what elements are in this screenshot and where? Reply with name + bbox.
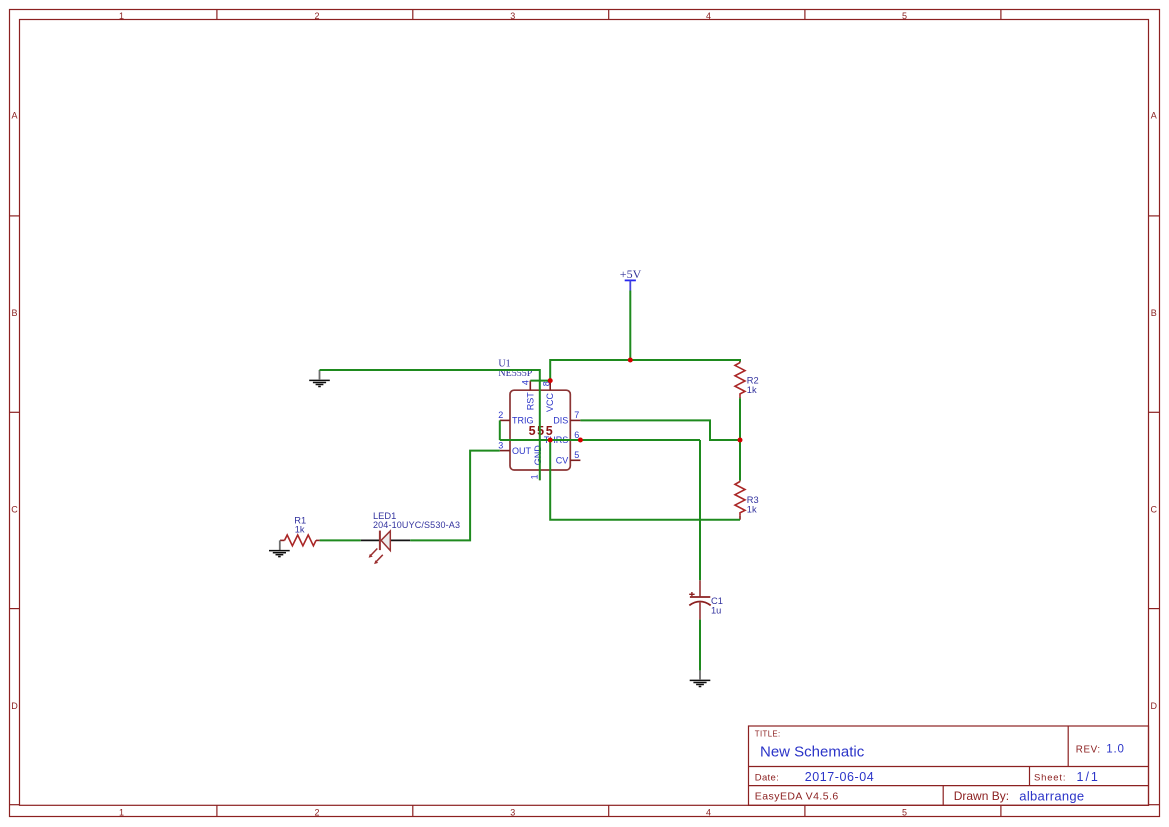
svg-text:REV:: REV:: [1076, 745, 1101, 756]
svg-text:Sheet:: Sheet:: [1034, 773, 1066, 784]
svg-text:A: A: [11, 110, 17, 120]
svg-text:1k: 1k: [295, 524, 305, 534]
ground (left, GND net): [309, 370, 330, 387]
svg-text:R2: R2: [747, 376, 759, 386]
wire TRIG pin2 down to THRS net: [499, 420, 501, 440]
svg-text:3: 3: [498, 440, 503, 450]
svg-text:4: 4: [706, 11, 711, 21]
junction dot THRS / R3 return: [548, 438, 553, 443]
svg-text:2: 2: [314, 807, 319, 817]
svg-text:5: 5: [902, 11, 907, 21]
svg-text:RST: RST: [525, 392, 535, 411]
svg-text:7: 7: [574, 410, 579, 420]
IC U1 NE555P (555 timer): [498, 358, 580, 480]
svg-text:D: D: [1151, 701, 1158, 711]
wire OUT pin3 to LED anode: [410, 451, 500, 541]
wire +5V rail right to R2: [630, 360, 740, 362]
svg-text:1/1: 1/1: [1077, 770, 1100, 784]
resistor R2: [735, 360, 759, 398]
wire R1 to LED cathode: [320, 539, 361, 541]
ground under R1: [269, 540, 290, 556]
resistor R1: [280, 515, 320, 545]
wire R2 to R3: [739, 398, 741, 480]
svg-text:DIS: DIS: [553, 416, 568, 426]
svg-text:5: 5: [574, 450, 579, 460]
wire left ground to GND pin1: [320, 370, 540, 480]
svg-text:A: A: [1151, 110, 1157, 120]
svg-text:4: 4: [521, 380, 531, 385]
svg-text:4: 4: [706, 807, 711, 817]
svg-text:New Schematic: New Schematic: [760, 744, 865, 761]
svg-text:2: 2: [498, 410, 503, 420]
svg-text:1k: 1k: [747, 504, 757, 514]
svg-text:204-10UYC/S530-A3: 204-10UYC/S530-A3: [373, 520, 460, 530]
capacitor C1 (polarized): [689, 580, 723, 619]
wire THRS net horizontal: [500, 439, 700, 441]
svg-text:TITLE:: TITLE:: [755, 730, 781, 739]
svg-text:3: 3: [510, 807, 515, 817]
svg-text:1: 1: [119, 807, 124, 817]
svg-text:1: 1: [529, 474, 539, 479]
svg-text:C: C: [1151, 504, 1158, 514]
wire DIS pin7 to R2-R3 junction: [580, 420, 740, 440]
svg-text:CV: CV: [556, 456, 569, 466]
svg-text:2017-06-04: 2017-06-04: [805, 770, 874, 784]
svg-text:555: 555: [529, 424, 555, 438]
wire C1 to ground: [699, 620, 701, 671]
resistor R3: [735, 480, 759, 519]
junction dot DIS at R2-R3: [738, 438, 743, 443]
junction dot +5V rail: [628, 358, 633, 363]
junction dot THRS pin6: [578, 438, 583, 443]
svg-text:albarrange: albarrange: [1019, 788, 1084, 803]
svg-text:1: 1: [119, 11, 124, 21]
svg-text:5: 5: [902, 807, 907, 817]
junction dot VCC pin8: [548, 378, 553, 383]
svg-text:Date:: Date:: [755, 773, 779, 784]
power flag +5V: [620, 267, 642, 291]
wire RST pin4 to VCC pin8: [530, 380, 550, 382]
svg-text:+5V: +5V: [620, 267, 642, 281]
svg-text:B: B: [1151, 308, 1157, 318]
svg-text:3: 3: [510, 11, 515, 21]
svg-text:B: B: [11, 308, 17, 318]
ground under C1: [690, 670, 711, 686]
svg-text:6: 6: [574, 430, 579, 440]
svg-text:D: D: [11, 701, 18, 711]
svg-text:C: C: [11, 504, 18, 514]
svg-text:R3: R3: [747, 495, 759, 505]
svg-text:2: 2: [314, 11, 319, 21]
wire THRS net down to C1: [699, 440, 701, 580]
svg-text:1.0: 1.0: [1106, 744, 1124, 756]
svg-text:Drawn By:: Drawn By:: [954, 789, 1009, 803]
svg-text:1k: 1k: [747, 385, 757, 395]
wire +5V stem: [629, 291, 631, 361]
svg-text:EasyEDA V4.5.6: EasyEDA V4.5.6: [755, 791, 839, 803]
svg-text:OUT: OUT: [512, 446, 532, 456]
svg-text:1u: 1u: [711, 605, 721, 615]
wire R3 bottom back to THRS net: [550, 440, 740, 520]
LED LED1 204-10UYC/S530-A3: [361, 511, 460, 564]
svg-text:GND: GND: [533, 445, 543, 466]
svg-text:VCC: VCC: [545, 393, 555, 413]
wire +5V rail left to VCC junction: [550, 360, 630, 381]
